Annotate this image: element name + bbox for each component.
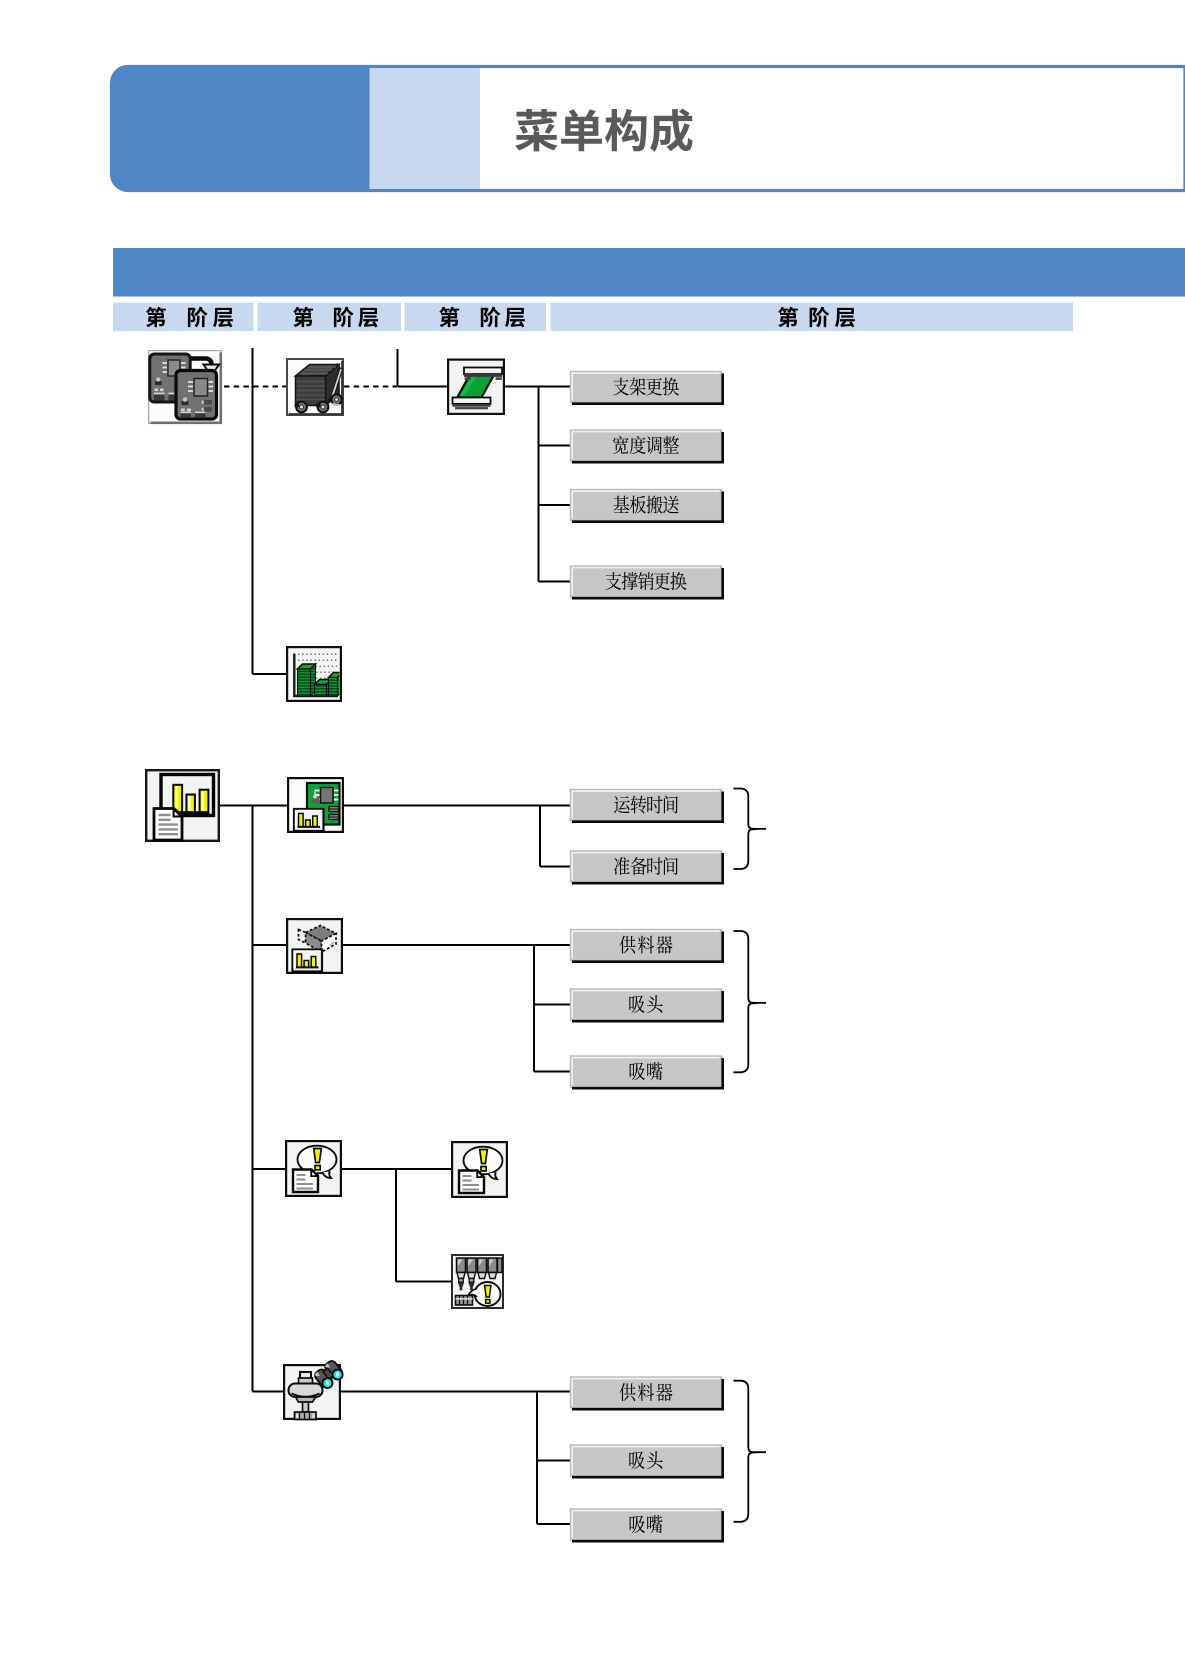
wire conveyor-box1 <box>505 386 571 388</box>
wire junction bubble column <box>395 1169 397 1282</box>
brace 供料 group row2 <box>734 931 767 1072</box>
wire branch 支撑销更换 <box>539 581 571 583</box>
wire dashed icon1-icon2 <box>224 386 286 388</box>
icon component/chip chart (section2 row2) <box>287 919 342 973</box>
box 准备时间 <box>571 851 723 883</box>
icon production-program copy (level1 section1) <box>149 351 222 424</box>
box 吸嘴 row4 <box>571 1509 723 1541</box>
wire trunk to chip icon <box>253 944 287 946</box>
icon stacked production chart (level2 section1 item2) <box>287 647 342 701</box>
box 吸头 row4 <box>571 1445 723 1477</box>
box 支撑销更换 <box>571 566 723 598</box>
box 基板搬送 <box>571 490 723 522</box>
wire binocular to 供料器 r4 <box>341 1391 571 1393</box>
header banner dark blue block <box>111 65 370 192</box>
wire junction trunk section1 boxes <box>538 387 540 582</box>
box 支架更换 <box>571 372 723 404</box>
title 菜单构成 <box>515 109 558 151</box>
wire trunk2 to binocular icon <box>253 1391 284 1393</box>
wire trunk to bubble icon <box>253 1168 286 1170</box>
wire pcb icon to 运转时间 <box>344 805 571 807</box>
wire trunk level2 section2 <box>252 806 254 1392</box>
icon conveyor/board transfer (level3 section1) <box>448 360 504 414</box>
wire junction 供料 boxes <box>533 945 535 1072</box>
brace 时间 group <box>734 789 767 870</box>
wire trunk1 to chart icon <box>253 673 287 675</box>
wire junction r4 boxes <box>536 1392 538 1525</box>
box 供料器 row4 <box>571 1377 723 1409</box>
box 供料器 row2 <box>571 930 723 962</box>
wire branch 吸头 <box>534 1004 571 1006</box>
icon production report (level1 section2) <box>146 770 219 841</box>
wire branch 吸嘴 <box>534 1071 571 1073</box>
box 吸嘴 row2 <box>571 1056 723 1088</box>
wire branch 吸头 r4 <box>537 1460 571 1462</box>
wire chip icon to 供料器 <box>343 944 571 946</box>
icon monitor/search (section2 row4) <box>284 1359 345 1419</box>
table header cells 第 阶层 <box>113 303 254 332</box>
box 宽度调整 <box>571 430 723 462</box>
wire stub level3 column <box>397 349 399 387</box>
icon cart/machine (level2 section1) <box>287 359 343 415</box>
icon nozzle error (level4 section2 row3) <box>452 1255 503 1308</box>
wire branch 吸嘴 r4 <box>537 1523 571 1525</box>
wire dashed icon2-stub <box>344 386 397 388</box>
wire to nozzle icon <box>396 1281 451 1283</box>
wire junction 时间 boxes <box>539 806 541 867</box>
wire trunk level2 section1 <box>252 348 254 674</box>
wire branch 准备时间 <box>540 866 571 868</box>
wire bubble icon to level3 bubble <box>342 1168 451 1170</box>
wire branch 宽度调整 <box>539 445 571 447</box>
box 运转时间 <box>571 790 723 822</box>
box 吸头 row2 <box>571 989 723 1021</box>
wire stub-conveyor <box>398 386 448 388</box>
wire section2 root to pcb icon <box>220 805 287 807</box>
brace 供料 group row4 <box>734 1381 767 1522</box>
table banner blue bar <box>113 248 1185 297</box>
wire branch 基板搬送 <box>539 504 571 506</box>
header banner rounded bar <box>112 67 1185 191</box>
icon pcb production chart (section2 row1) <box>288 778 343 832</box>
header banner light blue block <box>370 68 481 189</box>
